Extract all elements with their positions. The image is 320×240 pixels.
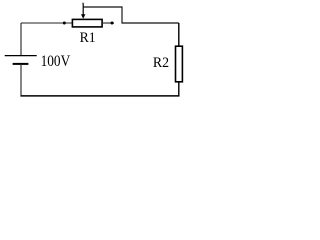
node right junction dot xyxy=(111,22,114,25)
resistor R2 xyxy=(176,46,183,82)
svg-text:100V: 100V xyxy=(41,52,71,70)
node left junction dot xyxy=(63,22,66,25)
wire R1 right terminal stub xyxy=(102,22,114,24)
wiper arrow of R1 xyxy=(81,3,85,19)
svg-text:R2: R2 xyxy=(153,55,169,71)
wire wiper to right side xyxy=(83,7,179,23)
wire left vertical lower (battery to bottom) xyxy=(20,64,22,96)
wire top-left: battery positive to R1 left terminal xyxy=(21,22,73,24)
battery positive plate (long) xyxy=(5,55,37,57)
wire bottom xyxy=(20,95,179,97)
wire right vertical to R2 xyxy=(178,23,180,47)
resistor R1 (potentiometer body) xyxy=(72,19,102,27)
battery negative plate (short) xyxy=(13,63,29,65)
wire left vertical upper (to battery) xyxy=(20,23,22,56)
svg-text:R1: R1 xyxy=(80,30,96,46)
wire below R2 xyxy=(178,82,180,97)
